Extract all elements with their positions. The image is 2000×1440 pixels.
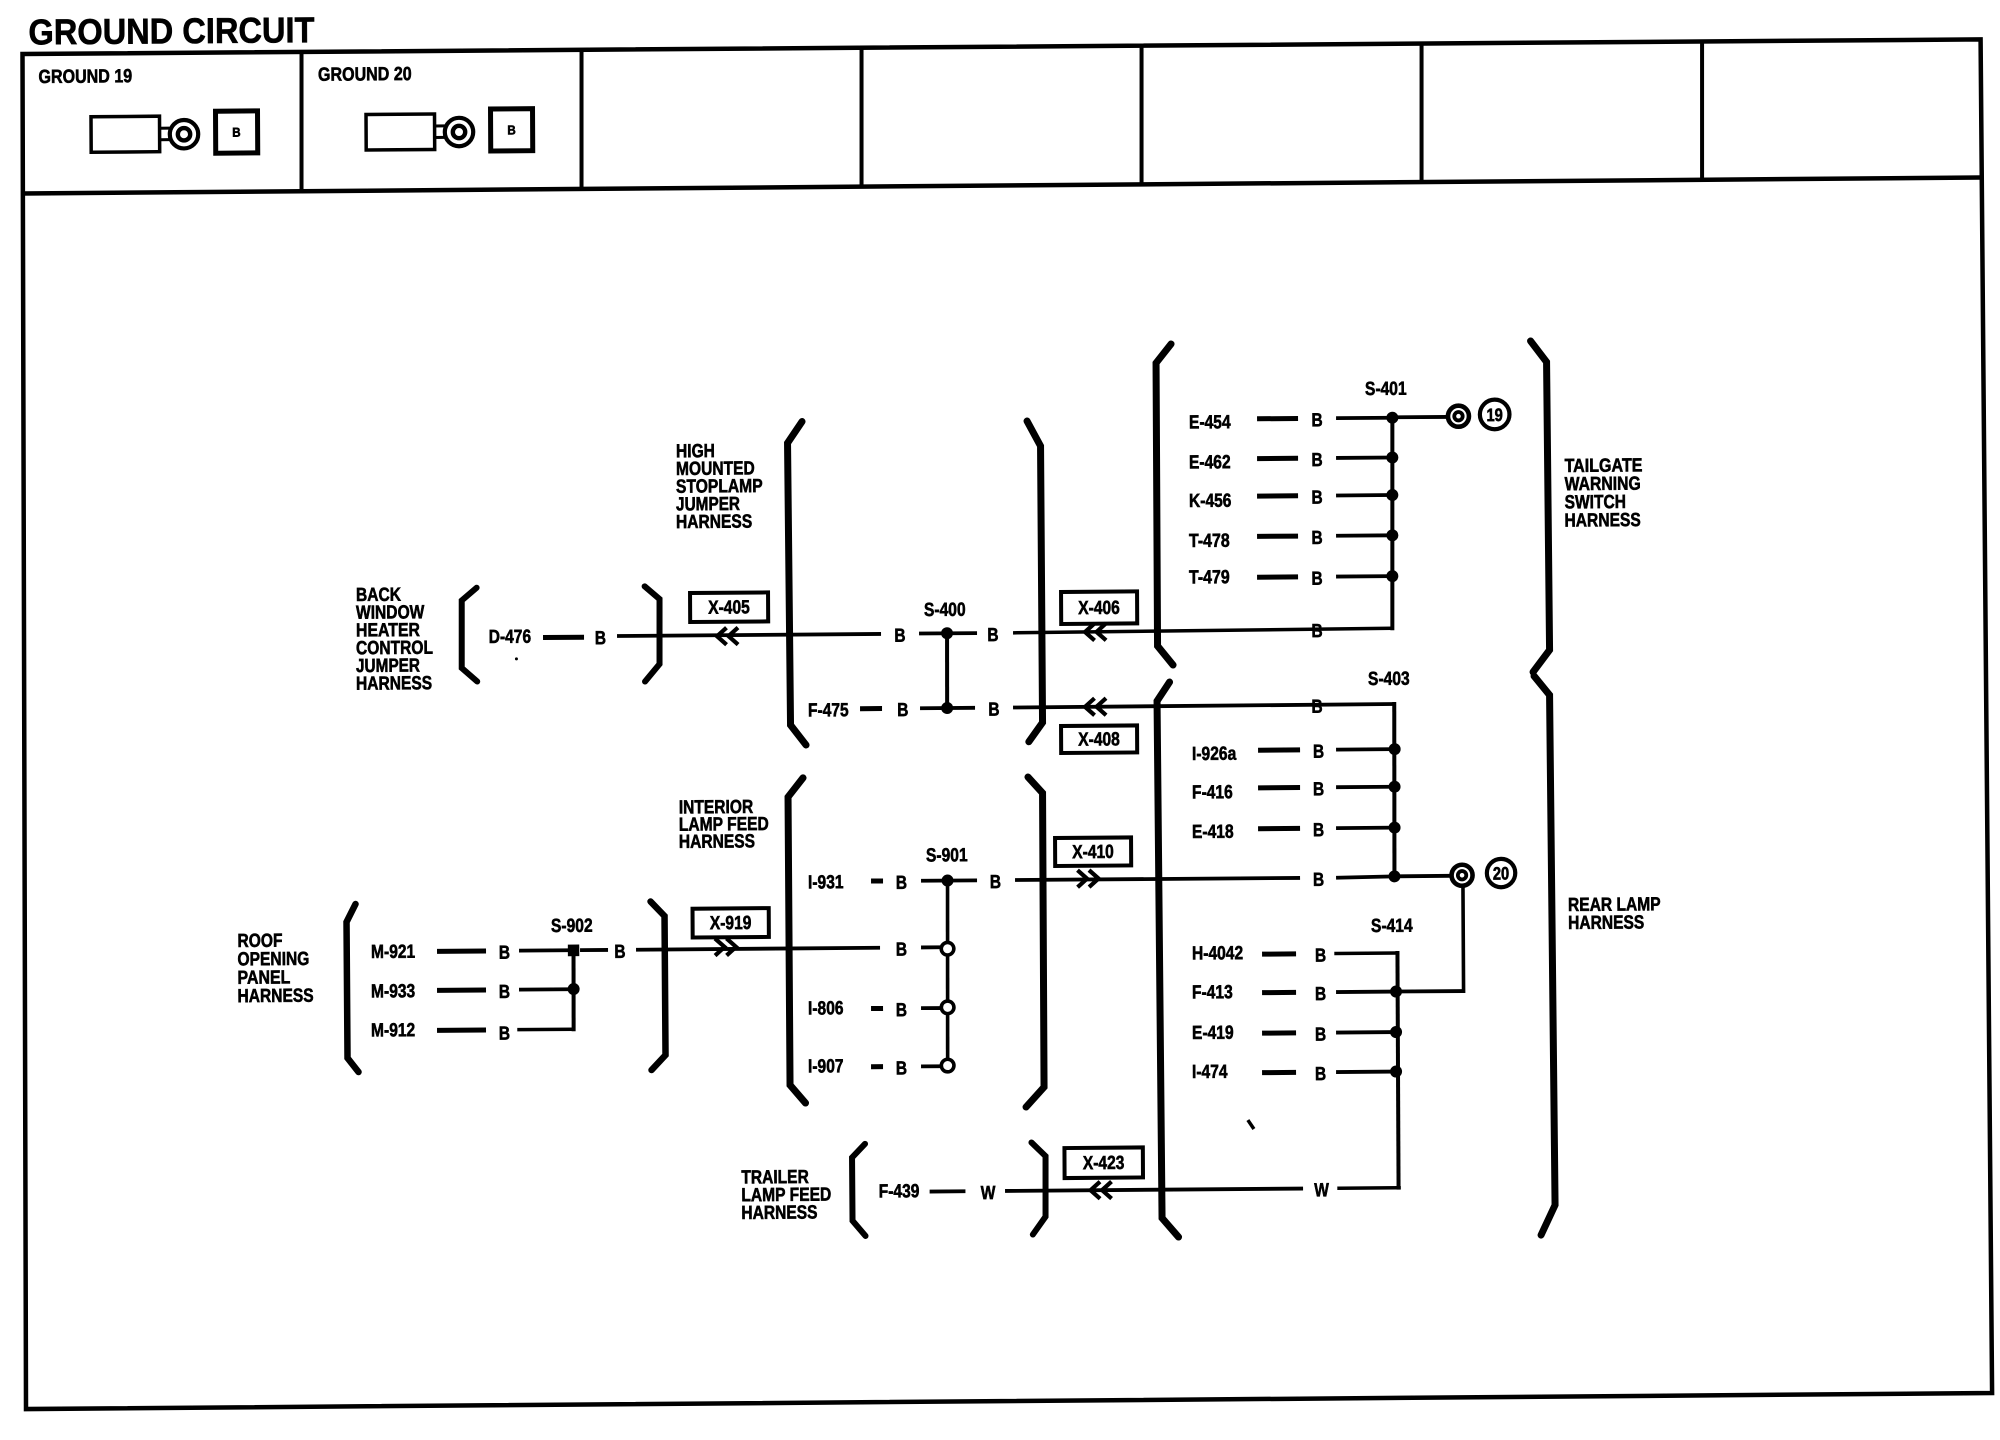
svg-text:F-416: F-416 [1192, 782, 1233, 803]
svg-text:X-408: X-408 [1078, 729, 1120, 750]
svg-text:B: B [614, 942, 625, 963]
svg-text:T-478: T-478 [1189, 531, 1230, 552]
svg-text:S-902: S-902 [551, 916, 593, 937]
svg-text:X-410: X-410 [1072, 842, 1114, 863]
svg-text:B: B [595, 628, 606, 649]
svg-text:HARNESS: HARNESS [1568, 912, 1644, 934]
svg-text:E-462: E-462 [1189, 452, 1231, 473]
svg-text:B: B [990, 872, 1001, 893]
svg-text:B: B [1315, 984, 1326, 1005]
svg-text:B: B [987, 625, 998, 646]
svg-text:M-933: M-933 [371, 981, 415, 1002]
svg-text:B: B [894, 626, 905, 647]
svg-text:F-475: F-475 [808, 700, 849, 721]
svg-text:M-921: M-921 [371, 942, 416, 963]
svg-text:B: B [1313, 779, 1324, 800]
svg-text:B: B [897, 700, 908, 721]
svg-text:HARNESS: HARNESS [676, 512, 752, 534]
svg-text:S-403: S-403 [1368, 669, 1410, 690]
svg-text:S-400: S-400 [924, 600, 966, 621]
svg-text:W: W [1314, 1180, 1329, 1201]
svg-text:19: 19 [1486, 405, 1503, 425]
svg-text:HARNESS: HARNESS [237, 986, 313, 1008]
svg-text:B: B [499, 1024, 510, 1045]
svg-text:B: B [1313, 742, 1324, 763]
svg-text:GROUND CIRCUIT: GROUND CIRCUIT [28, 9, 314, 52]
svg-text:B: B [896, 873, 907, 894]
svg-text:E-454: E-454 [1189, 412, 1231, 433]
svg-text:T-479: T-479 [1189, 567, 1230, 588]
svg-text:I-931: I-931 [808, 872, 844, 893]
svg-text:B: B [1315, 946, 1326, 967]
svg-text:B: B [1311, 488, 1322, 509]
svg-text:B: B [1315, 1064, 1326, 1085]
svg-text:E-418: E-418 [1192, 822, 1234, 843]
svg-text:B: B [1311, 528, 1322, 549]
svg-text:B: B [1311, 410, 1322, 431]
svg-text:I-474: I-474 [1192, 1062, 1228, 1083]
svg-text:B: B [1311, 450, 1322, 471]
svg-text:I-926a: I-926a [1192, 744, 1237, 765]
svg-text:B: B [499, 943, 510, 964]
svg-text:20: 20 [1493, 863, 1510, 883]
svg-text:F-439: F-439 [879, 1181, 920, 1202]
svg-text:B: B [1311, 697, 1322, 718]
svg-text:X-423: X-423 [1083, 1153, 1125, 1174]
svg-text:B: B [499, 982, 510, 1003]
svg-text:B: B [896, 1000, 907, 1021]
svg-text:HARNESS: HARNESS [741, 1202, 817, 1224]
svg-text:S-414: S-414 [1371, 916, 1413, 937]
svg-text:F-413: F-413 [1192, 982, 1233, 1003]
svg-text:W: W [981, 1183, 996, 1204]
svg-text:I-907: I-907 [808, 1056, 844, 1077]
svg-text:B: B [1313, 870, 1324, 891]
svg-text:B: B [507, 123, 515, 138]
svg-text:GROUND 20: GROUND 20 [318, 64, 412, 86]
svg-text:S-901: S-901 [926, 845, 968, 866]
svg-text:X-406: X-406 [1078, 598, 1120, 619]
svg-text:B: B [896, 1058, 907, 1079]
svg-text:B: B [1313, 820, 1324, 841]
svg-text:B: B [988, 700, 999, 721]
svg-text:E-419: E-419 [1192, 1023, 1234, 1044]
svg-text:B: B [1311, 621, 1322, 642]
svg-text:GROUND 19: GROUND 19 [38, 66, 132, 88]
svg-text:H-4042: H-4042 [1192, 943, 1243, 964]
svg-text:S-401: S-401 [1365, 379, 1407, 400]
svg-text:B: B [1315, 1025, 1326, 1046]
svg-text:X-919: X-919 [710, 913, 752, 934]
svg-text:M-912: M-912 [371, 1020, 415, 1041]
svg-text:B: B [232, 125, 240, 140]
svg-text:I-806: I-806 [808, 998, 844, 1019]
svg-text:K-456: K-456 [1189, 491, 1232, 512]
svg-text:X-405: X-405 [708, 597, 750, 618]
svg-text:B: B [1311, 569, 1322, 590]
svg-text:HARNESS: HARNESS [1564, 510, 1640, 532]
svg-text:HARNESS: HARNESS [679, 831, 755, 853]
svg-text:HARNESS: HARNESS [356, 673, 432, 695]
svg-text:B: B [896, 939, 907, 960]
svg-text:D-476: D-476 [489, 627, 532, 648]
